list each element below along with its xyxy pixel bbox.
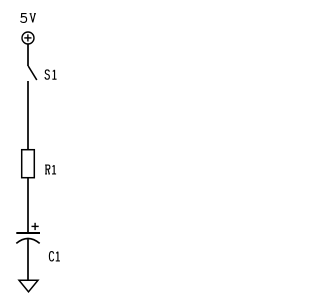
wire from resistor R1 to capacitor C1 bbox=[27, 178, 29, 233]
wire from switch S1 to resistor R1 bbox=[27, 81, 29, 150]
wire from 5V to switch S1 bbox=[27, 44, 29, 66]
wire from capacitor C1 to ground bbox=[27, 239, 29, 280]
capacitor C1 bottom plate (curved, negative) bbox=[16, 239, 39, 244]
net label 5V bbox=[21, 14, 36, 23]
ground symbol (open triangle) bbox=[19, 280, 38, 292]
power symbol VCC (circle with plus) bbox=[22, 32, 34, 44]
label C1 bbox=[49, 252, 60, 261]
label S1 bbox=[45, 70, 57, 79]
resistor R1 (box body) bbox=[22, 150, 35, 178]
capacitor C1 polarity plus sign bbox=[32, 223, 39, 230]
switch S1 blade (open contact) bbox=[28, 66, 37, 80]
label R1 bbox=[45, 165, 56, 174]
capacitor C1 top plate (straight, positive) bbox=[16, 232, 40, 234]
